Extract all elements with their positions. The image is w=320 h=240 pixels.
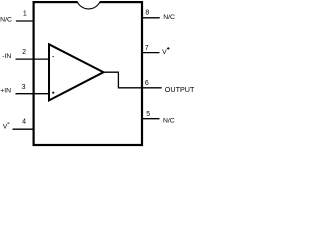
svg-text:8: 8 — [145, 9, 149, 16]
svg-text:N/C: N/C — [163, 118, 175, 125]
svg-text:5: 5 — [146, 111, 150, 118]
svg-text:-IN: -IN — [2, 53, 11, 60]
svg-text:V: V — [3, 123, 8, 130]
svg-text:V: V — [162, 49, 167, 56]
svg-text:4: 4 — [22, 119, 26, 126]
svg-text:3: 3 — [22, 84, 26, 91]
svg-text:1: 1 — [23, 11, 27, 18]
svg-text:N/C: N/C — [163, 14, 175, 21]
svg-text:OUTPUT: OUTPUT — [165, 85, 194, 94]
svg-text:N/C: N/C — [0, 17, 12, 24]
svg-text:7: 7 — [145, 45, 149, 52]
svg-text:6: 6 — [145, 80, 149, 87]
svg-text:2: 2 — [22, 49, 26, 56]
svg-text:+IN: +IN — [0, 87, 11, 94]
